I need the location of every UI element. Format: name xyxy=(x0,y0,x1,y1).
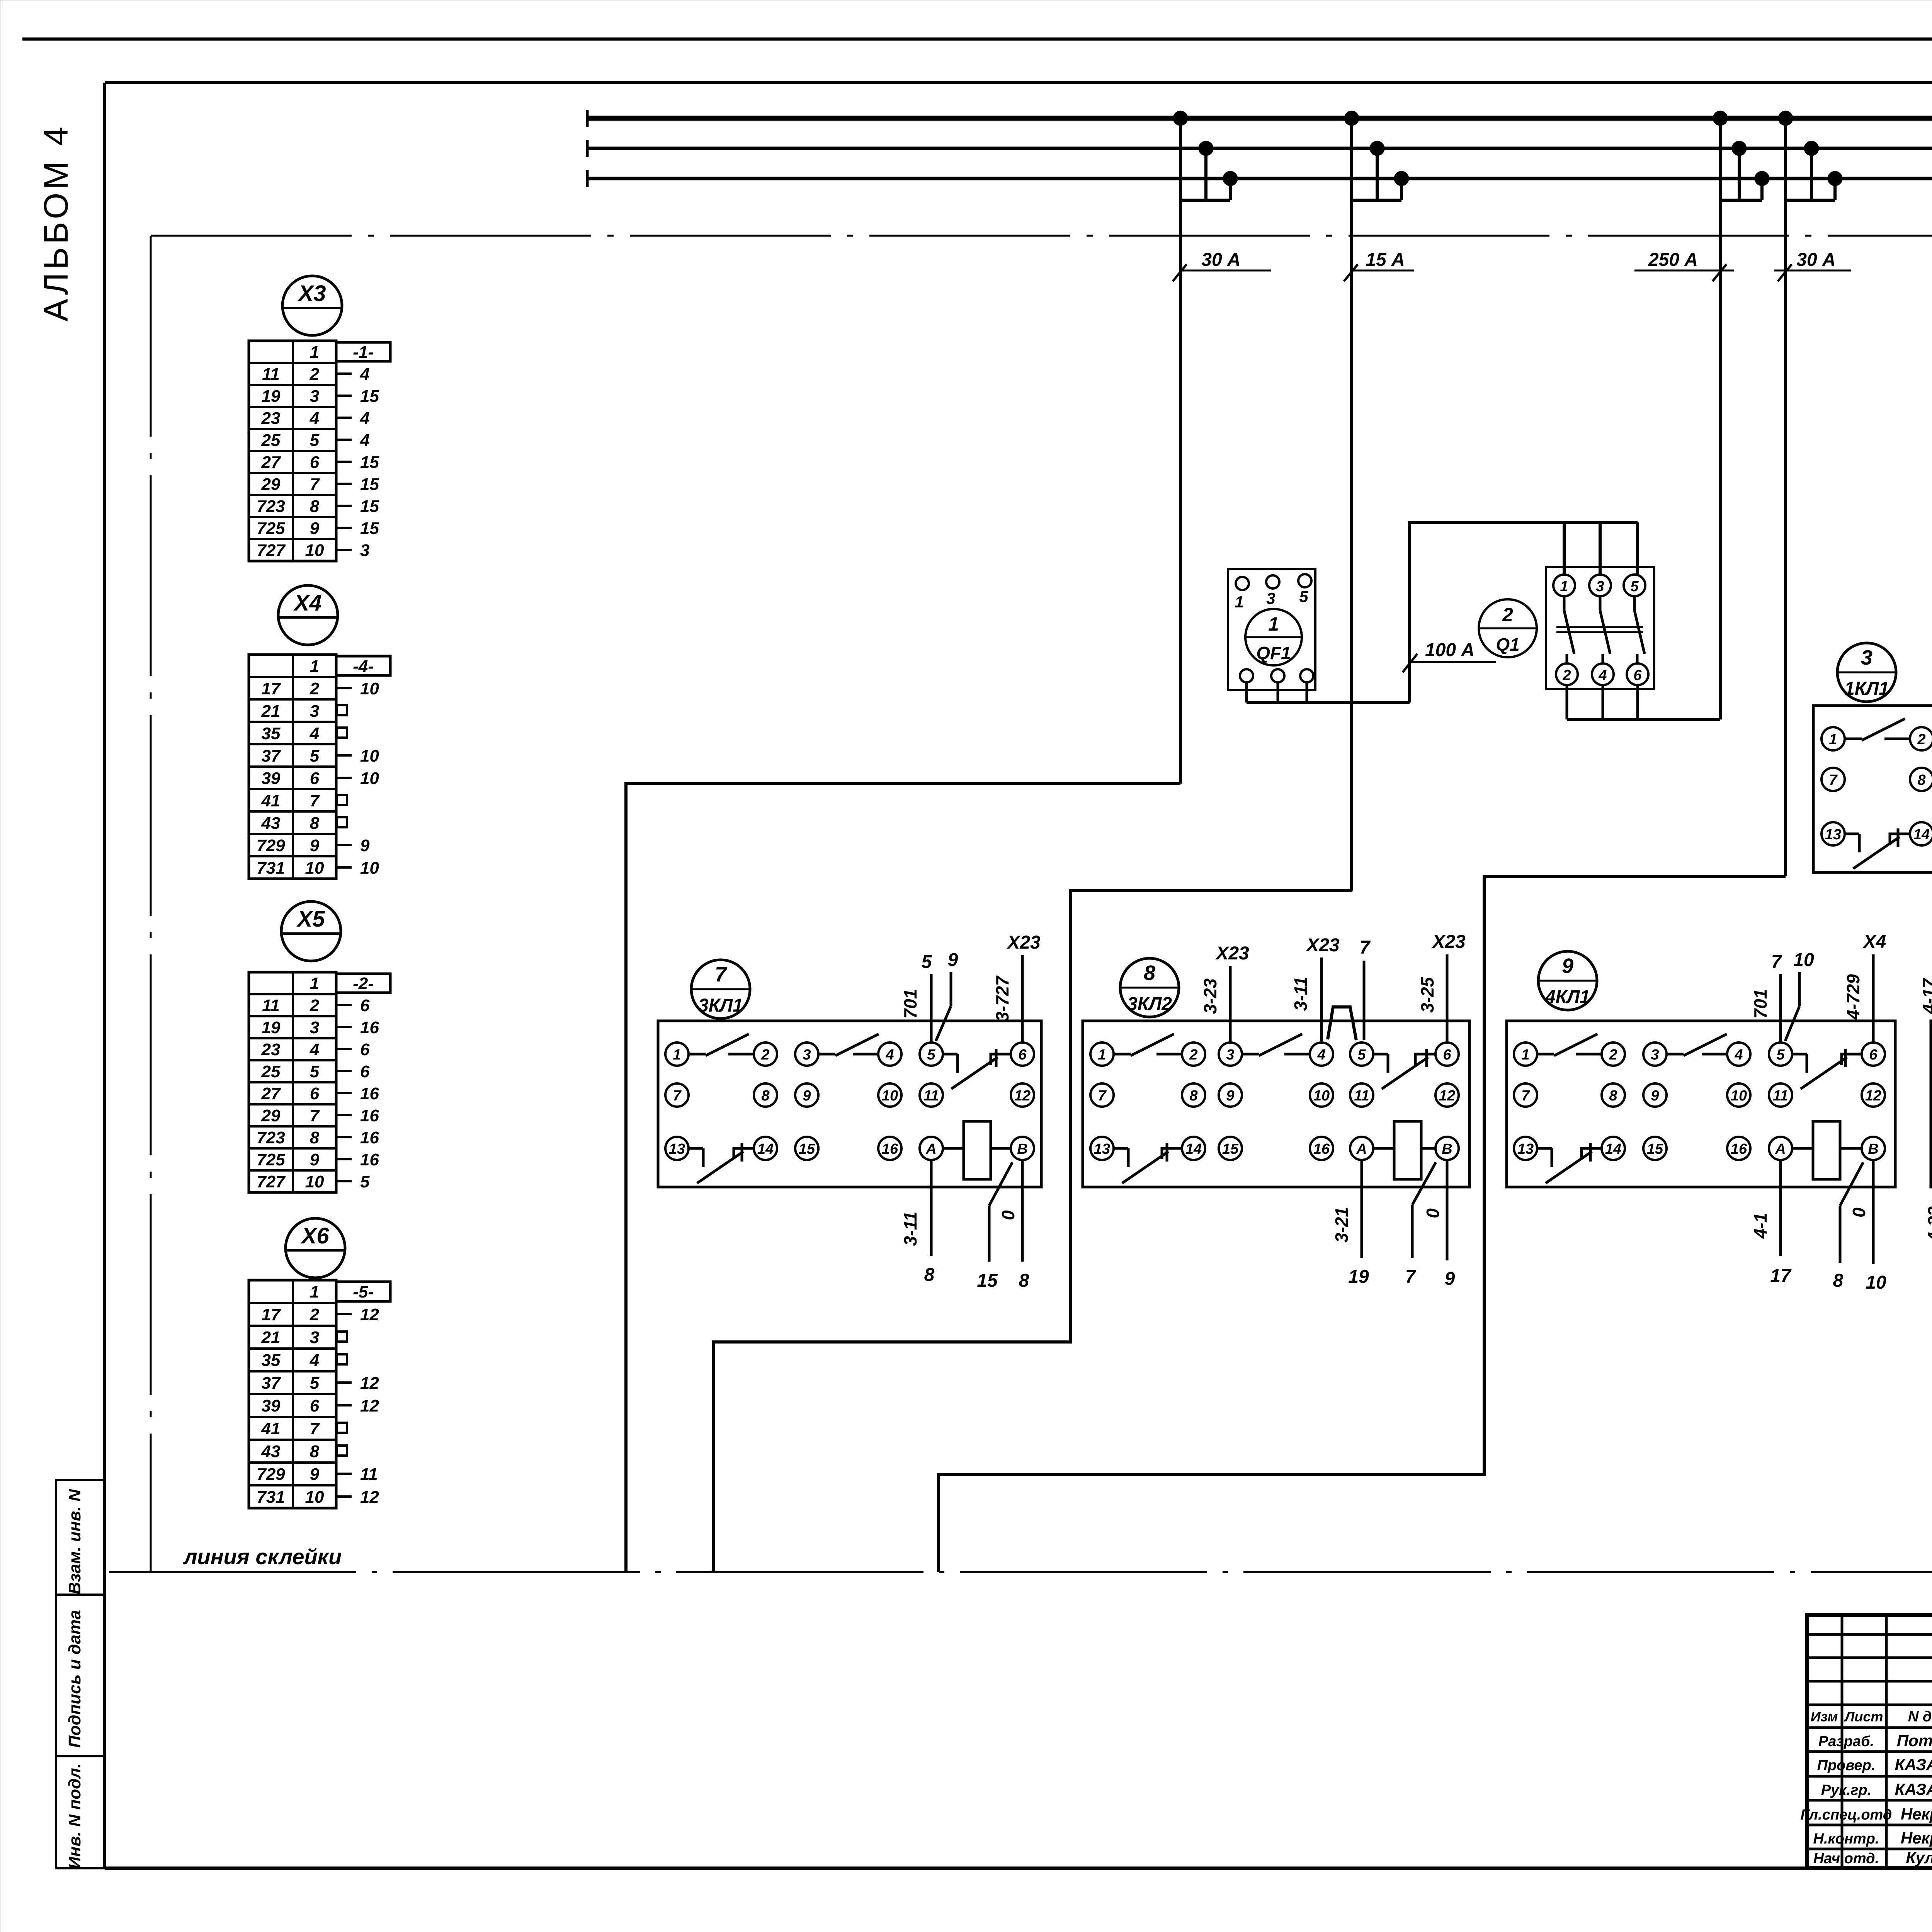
signature row Нач.отд. Кулагин xyxy=(1813,1849,1932,1867)
switch Q1 box xyxy=(1546,567,1654,689)
3KL2 pin 1 xyxy=(1090,1043,1114,1066)
svg-text:701: 701 xyxy=(900,989,920,1019)
X6 spare stub xyxy=(337,1332,347,1342)
svg-text:Некрасов: Некрасов xyxy=(1901,1829,1932,1847)
svg-text:В: В xyxy=(1017,1141,1027,1157)
svg-text:729: 729 xyxy=(257,1465,285,1484)
svg-text:8: 8 xyxy=(1144,961,1155,985)
svg-text:15: 15 xyxy=(1647,1141,1663,1157)
svg-text:6: 6 xyxy=(1443,1047,1451,1063)
1KL1 pin 8 xyxy=(1910,768,1932,791)
svg-text:Некрасов: Некрасов xyxy=(1901,1805,1932,1823)
svg-text:7: 7 xyxy=(310,1106,320,1125)
svg-text:Изм: Изм xyxy=(1811,1709,1838,1725)
svg-text:10: 10 xyxy=(360,859,379,878)
3KL1 pin 11 xyxy=(920,1083,943,1107)
QF1 designator bubble 1/QF1 xyxy=(1245,609,1302,665)
3KL2 pin 15 xyxy=(1219,1137,1242,1160)
svg-text:5: 5 xyxy=(310,431,320,450)
svg-text:19: 19 xyxy=(262,1018,281,1037)
3KL2 pin 12 xyxy=(1435,1083,1459,1107)
svg-text:КАЗАКОВА: КАЗАКОВА xyxy=(1895,1755,1932,1774)
svg-text:15: 15 xyxy=(360,453,379,472)
svg-text:27: 27 xyxy=(261,453,281,472)
3KL2 jumper pin4 to pin5 xyxy=(1328,1007,1356,1040)
svg-text:1: 1 xyxy=(310,343,319,362)
4KL1 contact 5-6 xyxy=(1792,1049,1862,1089)
svg-text:731: 731 xyxy=(257,859,285,878)
3KL2 pin A wire net 3-21 to 19 xyxy=(1332,1160,1369,1287)
svg-text:12: 12 xyxy=(360,1374,379,1393)
signature table headers xyxy=(1811,1709,1932,1725)
svg-text:27: 27 xyxy=(261,1084,281,1103)
4KL1 pin 1 xyxy=(1514,1043,1537,1066)
svg-text:8: 8 xyxy=(1917,772,1926,788)
X4 cable -4- xyxy=(336,656,390,676)
3KL2 pin 3 xyxy=(1219,1043,1242,1066)
svg-text:10: 10 xyxy=(360,679,379,698)
X3 wire to 15 xyxy=(336,475,379,494)
svg-text:8: 8 xyxy=(924,1265,935,1285)
svg-text:7: 7 xyxy=(715,963,728,986)
4KL1 pin 15 xyxy=(1643,1137,1667,1160)
wire drops to Q1 pins xyxy=(1564,522,1638,575)
svg-text:4: 4 xyxy=(1734,1047,1743,1063)
3KL1 pin B wire to 15 xyxy=(977,1162,1012,1291)
svg-text:2: 2 xyxy=(1609,1047,1617,1063)
svg-text:1: 1 xyxy=(1829,731,1837,748)
svg-text:4: 4 xyxy=(310,724,319,743)
4KL1 pin 7 xyxy=(1514,1083,1537,1107)
terminal block X6 symbol xyxy=(286,1218,345,1278)
svg-text:1КЛ1: 1КЛ1 xyxy=(1844,679,1889,699)
svg-text:6: 6 xyxy=(1869,1047,1878,1063)
3KL2 pin3 wire net 3-23 to X23 xyxy=(1200,943,1249,1043)
3KL2 contact 3-4 xyxy=(1242,1034,1310,1056)
svg-text:8: 8 xyxy=(1019,1270,1029,1291)
svg-text:-4-: -4- xyxy=(353,657,374,676)
svg-text:16: 16 xyxy=(360,1128,379,1147)
svg-text:X23: X23 xyxy=(1006,932,1041,953)
svg-text:2: 2 xyxy=(1917,731,1925,748)
svg-text:723: 723 xyxy=(257,497,285,516)
svg-text:21: 21 xyxy=(261,1328,281,1347)
4KL1 pin5 wire net 701 to 7 xyxy=(1750,952,1782,1043)
svg-text:8: 8 xyxy=(761,1088,770,1104)
4KL1 contact 3-4 xyxy=(1667,1034,1727,1056)
svg-text:29: 29 xyxy=(261,1106,281,1125)
svg-text:1: 1 xyxy=(1268,613,1279,635)
svg-text:5: 5 xyxy=(1776,1047,1785,1063)
svg-text:17: 17 xyxy=(1770,1266,1792,1286)
3KL2 pin 5 xyxy=(1350,1043,1373,1066)
svg-text:25: 25 xyxy=(261,431,281,450)
3KL2 pin 2 xyxy=(1182,1043,1205,1066)
svg-text:3-727: 3-727 xyxy=(992,975,1012,1022)
svg-text:3: 3 xyxy=(310,702,319,721)
bus line L2 xyxy=(587,147,1932,150)
X5 cable -2- xyxy=(336,974,390,993)
svg-text:19: 19 xyxy=(262,387,281,406)
svg-text:12: 12 xyxy=(360,1305,379,1324)
Q1 top pin 5 xyxy=(1624,575,1645,596)
fuse rating label 250 А xyxy=(1634,250,1734,281)
X4 spare stub xyxy=(337,817,347,827)
relay 3KL1 designator bubble xyxy=(691,960,750,1019)
svg-text:0: 0 xyxy=(998,1210,1018,1220)
1KL1 pin 1 xyxy=(1821,727,1845,750)
Q1 bottom pin 4 xyxy=(1592,663,1614,685)
wire QF1 output bus xyxy=(1247,701,1410,704)
glue line bottom xyxy=(109,1571,1932,1573)
4KL1 pin B wire to 8 xyxy=(1833,1162,1863,1291)
svg-text:-2-: -2- xyxy=(353,974,374,993)
X3 wire to 3 xyxy=(336,541,369,560)
svg-text:43: 43 xyxy=(261,1442,281,1461)
3KL2 pin А xyxy=(1350,1137,1373,1160)
svg-text:14: 14 xyxy=(1185,1141,1202,1157)
3KL1 pin B wire net 0 to 8 xyxy=(998,1160,1029,1291)
svg-text:X5: X5 xyxy=(296,906,325,932)
X4 wire to 9 xyxy=(336,836,370,855)
X3 wire to 4 xyxy=(336,365,369,384)
svg-text:16: 16 xyxy=(360,1018,379,1037)
svg-text:Нач.отд.: Нач.отд. xyxy=(1813,1850,1879,1867)
4KL1 pin 4 xyxy=(1727,1043,1750,1066)
side column box Podpis i data xyxy=(56,1595,105,1756)
svg-text:8: 8 xyxy=(310,814,320,833)
4KL1 contact 1-2 xyxy=(1537,1034,1602,1056)
QF1 bottom pin xyxy=(1271,669,1284,682)
svg-text:11: 11 xyxy=(262,996,280,1015)
svg-text:3: 3 xyxy=(310,387,319,406)
svg-text:4-729: 4-729 xyxy=(1843,974,1863,1020)
svg-text:10: 10 xyxy=(1313,1088,1330,1104)
svg-text:11: 11 xyxy=(1773,1088,1788,1104)
X5 wire to 6 xyxy=(336,1062,370,1081)
svg-text:5: 5 xyxy=(1630,578,1639,595)
inner frame bottom xyxy=(105,1867,1932,1870)
svg-text:7: 7 xyxy=(1405,1267,1417,1287)
svg-text:41: 41 xyxy=(261,1419,281,1438)
tap feeder 15 А xyxy=(1344,111,1409,891)
svg-text:2: 2 xyxy=(1189,1047,1197,1063)
relay 1KL1 body xyxy=(1813,706,1932,872)
4KL1 pin 16 xyxy=(1727,1137,1750,1160)
svg-text:В: В xyxy=(1868,1141,1878,1157)
svg-text:7: 7 xyxy=(1098,1088,1107,1104)
svg-text:7: 7 xyxy=(1360,937,1371,958)
svg-text:6: 6 xyxy=(310,1396,320,1415)
svg-text:КАЗАКОВА: КАЗАКОВА xyxy=(1895,1780,1932,1798)
svg-text:29: 29 xyxy=(261,475,281,494)
svg-text:Гл.спец.отд: Гл.спец.отд xyxy=(1801,1807,1892,1823)
svg-text:10: 10 xyxy=(360,769,379,788)
bus line L3 xyxy=(587,177,1932,180)
3KL1 contact 13-14 xyxy=(689,1143,754,1183)
svg-text:11: 11 xyxy=(262,365,280,384)
svg-text:10: 10 xyxy=(305,1488,324,1507)
Q1 bottom pin stubs xyxy=(1567,685,1638,719)
svg-text:X4: X4 xyxy=(1862,932,1886,952)
svg-text:8: 8 xyxy=(1189,1088,1198,1104)
terminal block X3 table xyxy=(249,341,336,561)
4KL1 pin 14 xyxy=(1602,1137,1625,1160)
svg-text:2: 2 xyxy=(310,679,320,698)
X6 wire to 12 xyxy=(336,1305,379,1324)
svg-text:X23: X23 xyxy=(1305,935,1340,956)
X3 wire to 4 xyxy=(336,431,369,450)
terminal block X6 table xyxy=(249,1280,336,1508)
3KL2 pin 16 xyxy=(1310,1137,1333,1160)
svg-text:Провер.: Провер. xyxy=(1817,1757,1876,1774)
svg-text:9: 9 xyxy=(1445,1269,1455,1289)
inner frame left xyxy=(103,83,106,1868)
svg-text:3-11: 3-11 xyxy=(1291,977,1311,1011)
X3 wire to 15 xyxy=(336,453,379,472)
svg-text:35: 35 xyxy=(262,724,281,743)
terminal block X5 symbol xyxy=(281,901,341,961)
tap feeder 30 А xyxy=(1778,111,1842,876)
3KL1 coil xyxy=(943,1121,1011,1179)
svg-text:3-11: 3-11 xyxy=(900,1212,920,1246)
1KL1 pin 14 xyxy=(1910,822,1932,845)
X5 wire to 16 xyxy=(336,1128,379,1147)
terminal block X4 symbol xyxy=(278,585,338,645)
svg-text:3: 3 xyxy=(1226,1047,1234,1063)
3KL1 pin 9 xyxy=(795,1083,818,1107)
svg-text:3: 3 xyxy=(1861,646,1872,669)
circuit breaker QF1 box xyxy=(1228,569,1315,690)
svg-text:14: 14 xyxy=(1605,1141,1621,1157)
svg-text:4: 4 xyxy=(360,409,369,428)
3KL2 pin4 wire net 3-11 to X23 xyxy=(1291,935,1340,1041)
X6 wire to 12 xyxy=(336,1488,379,1507)
3KL1 pin 16 xyxy=(878,1137,901,1160)
svg-text:12: 12 xyxy=(1865,1088,1881,1104)
3KL1 pin А xyxy=(920,1137,943,1160)
svg-text:6: 6 xyxy=(310,769,320,788)
svg-text:А: А xyxy=(1356,1141,1367,1157)
svg-text:11: 11 xyxy=(360,1465,378,1484)
svg-text:13: 13 xyxy=(1094,1141,1110,1157)
fuse rating label 15 А xyxy=(1344,250,1414,281)
inner frame top xyxy=(105,81,1932,84)
Q1 bottom pin 2 xyxy=(1556,663,1578,685)
X5 wire to 16 xyxy=(336,1018,379,1037)
4KL1 pin 6 xyxy=(1862,1043,1885,1066)
3KL2 contact 5-6 xyxy=(1373,1049,1435,1089)
3KL2 pin 4 xyxy=(1310,1043,1333,1066)
X3 wire to 15 xyxy=(336,519,379,538)
signature row Разраб. Потоцкий xyxy=(1818,1731,1932,1750)
svg-text:5: 5 xyxy=(1299,587,1308,605)
svg-text:10: 10 xyxy=(305,1172,324,1191)
svg-text:39: 39 xyxy=(262,1396,281,1415)
X5 wire to 16 xyxy=(336,1106,379,1125)
svg-text:0: 0 xyxy=(1423,1208,1443,1218)
X4 spare stub xyxy=(337,728,347,738)
side column box Vzam.inv xyxy=(56,1480,105,1595)
svg-text:1: 1 xyxy=(310,974,319,993)
svg-text:Рук.гр.: Рук.гр. xyxy=(1821,1782,1871,1798)
svg-text:Q1: Q1 xyxy=(1496,634,1519,655)
4KL1 pin A wire net 4-1 to 17 xyxy=(1750,1160,1792,1286)
svg-text:0: 0 xyxy=(1849,1207,1869,1218)
svg-text:1: 1 xyxy=(673,1047,681,1063)
svg-text:3: 3 xyxy=(310,1018,319,1037)
svg-text:4: 4 xyxy=(310,409,319,428)
svg-text:12: 12 xyxy=(360,1396,379,1415)
title block outer xyxy=(1807,1615,1932,1868)
svg-text:15: 15 xyxy=(1222,1141,1239,1157)
svg-text:725: 725 xyxy=(257,1150,285,1169)
X3 wire to 15 xyxy=(336,387,379,406)
glue line left vertical xyxy=(150,236,152,1572)
terminal block X4 table xyxy=(249,655,336,879)
svg-text:15: 15 xyxy=(799,1141,815,1157)
svg-text:729: 729 xyxy=(257,836,285,855)
svg-text:37: 37 xyxy=(262,747,281,765)
3KL2 pin 13 xyxy=(1090,1137,1114,1160)
relay 3KL2 designator bubble xyxy=(1120,958,1179,1017)
svg-text:4-1: 4-1 xyxy=(1750,1213,1770,1239)
svg-text:10: 10 xyxy=(1793,950,1814,970)
bus L1 end tick xyxy=(586,110,589,127)
3KL1 pin 13 xyxy=(665,1137,689,1160)
svg-text:701: 701 xyxy=(1750,989,1770,1019)
svg-text:9: 9 xyxy=(803,1088,811,1104)
tap feeder 250 А xyxy=(1713,111,1769,719)
Q1 pole contacts xyxy=(1556,596,1645,663)
svg-text:6: 6 xyxy=(1018,1047,1027,1063)
svg-text:4: 4 xyxy=(360,431,369,450)
svg-text:6: 6 xyxy=(360,996,370,1015)
X3 cable -1- xyxy=(336,342,390,362)
svg-text:-1-: -1- xyxy=(353,343,374,362)
3KL1 pin 15 xyxy=(795,1137,818,1160)
svg-text:14: 14 xyxy=(1913,827,1930,843)
3KL2 contact 13-14 xyxy=(1114,1143,1182,1183)
svg-text:7: 7 xyxy=(1771,952,1782,972)
svg-text:30 А: 30 А xyxy=(1796,250,1835,270)
4KL1 pin 5 xyxy=(1769,1043,1792,1066)
svg-text:4: 4 xyxy=(1598,667,1607,684)
svg-text:3: 3 xyxy=(1596,578,1604,595)
svg-text:Разраб.: Разраб. xyxy=(1818,1733,1874,1750)
X5 wire to 16 xyxy=(336,1150,379,1169)
svg-text:3: 3 xyxy=(360,541,369,560)
QF1 bottom pin stubs xyxy=(1247,682,1307,702)
svg-text:6: 6 xyxy=(310,1084,320,1103)
svg-text:Потоцкий: Потоцкий xyxy=(1897,1731,1932,1750)
relay 4KL1 body xyxy=(1507,1021,1895,1187)
svg-text:9: 9 xyxy=(310,519,320,538)
svg-text:3КЛ1: 3КЛ1 xyxy=(698,995,743,1016)
svg-text:10: 10 xyxy=(360,747,379,765)
signature row Рук.гр. КАЗАКОВА xyxy=(1821,1780,1932,1798)
1KL1 contact 1-2 xyxy=(1845,719,1910,740)
svg-text:4: 4 xyxy=(310,1351,319,1370)
4KL1 pin 8 xyxy=(1602,1083,1625,1107)
svg-text:2: 2 xyxy=(761,1047,769,1063)
svg-text:В: В xyxy=(1442,1141,1452,1157)
4KL1 pin6 wire net 4-729 to X4 xyxy=(1843,932,1886,1043)
X6 wire to 12 xyxy=(336,1374,379,1393)
svg-text:5: 5 xyxy=(1357,1047,1366,1063)
svg-text:4: 4 xyxy=(1317,1047,1325,1063)
bus line L1 xyxy=(587,116,1932,121)
signature table grid xyxy=(1807,1615,1932,1868)
svg-text:6: 6 xyxy=(360,1040,370,1059)
Q1 top pin 3 xyxy=(1589,575,1611,596)
wire Q1 output bus xyxy=(1567,718,1720,721)
X5 wire to 6 xyxy=(336,1040,370,1059)
svg-text:А: А xyxy=(925,1141,936,1157)
3KL1 pin 5 xyxy=(920,1043,943,1066)
4KL1 pin 10 xyxy=(1727,1083,1750,1107)
signature row Н.контр. Некрасов xyxy=(1813,1829,1932,1847)
svg-text:5: 5 xyxy=(360,1172,370,1191)
outer border top xyxy=(22,37,1932,41)
svg-text:35: 35 xyxy=(262,1351,281,1370)
1KL1 pin 13 xyxy=(1821,822,1845,845)
3KL1 pin 12 xyxy=(1011,1083,1034,1107)
svg-text:9: 9 xyxy=(360,836,370,855)
svg-text:3КЛ2: 3КЛ2 xyxy=(1127,994,1172,1014)
svg-text:9: 9 xyxy=(310,1150,320,1169)
svg-text:3-23: 3-23 xyxy=(1200,978,1220,1014)
tap feeder 30 А xyxy=(1173,111,1238,784)
svg-text:13: 13 xyxy=(1517,1141,1534,1157)
svg-text:8: 8 xyxy=(310,1128,320,1147)
3KL1 contact 1-2 xyxy=(689,1034,754,1056)
svg-text:30 А: 30 А xyxy=(1201,250,1240,270)
fuse rating label 30 А xyxy=(1173,250,1271,281)
svg-text:7: 7 xyxy=(673,1088,682,1104)
svg-text:5: 5 xyxy=(310,747,320,765)
terminal block X5 table xyxy=(249,972,336,1192)
svg-text:10: 10 xyxy=(1866,1272,1886,1293)
QF1 bottom pin xyxy=(1300,669,1313,682)
3KL1 contact 5-6 xyxy=(943,1049,1011,1089)
relay 1KL1 designator bubble xyxy=(1837,643,1896,702)
4KL1 pin5 wire to 10 xyxy=(1785,950,1814,1041)
3KL1 pin 6 xyxy=(1011,1043,1034,1066)
QF1 top pin 5 xyxy=(1298,574,1311,605)
svg-text:12: 12 xyxy=(1439,1088,1455,1104)
4KL1 pin В xyxy=(1862,1137,1885,1160)
3KL1 pin 7 xyxy=(665,1083,689,1107)
side column box Inv.N podl xyxy=(56,1756,105,1868)
svg-text:4-17: 4-17 xyxy=(1919,978,1932,1014)
svg-text:16: 16 xyxy=(360,1106,379,1125)
3KL1 pin 8 xyxy=(754,1083,777,1107)
svg-text:линия склейки: линия склейки xyxy=(183,1544,342,1569)
svg-text:АЛЬБОМ 4: АЛЬБОМ 4 xyxy=(37,124,75,321)
svg-text:100 А: 100 А xyxy=(1425,640,1475,660)
X3 wire to 4 xyxy=(336,409,369,428)
bus L2 end tick xyxy=(586,140,589,157)
svg-text:15: 15 xyxy=(977,1270,998,1291)
rating label 100 A xyxy=(1403,640,1496,672)
svg-text:7: 7 xyxy=(310,475,320,494)
svg-text:5: 5 xyxy=(922,952,932,972)
svg-text:2: 2 xyxy=(310,996,320,1015)
X6 spare stub xyxy=(337,1423,347,1433)
wire W4 from 30A tap to splice line xyxy=(939,876,1786,1572)
4KL1 coil xyxy=(1792,1121,1862,1179)
